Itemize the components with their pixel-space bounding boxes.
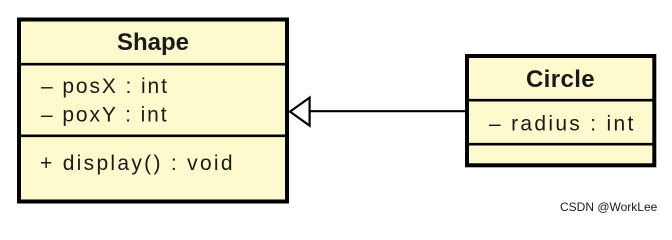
svg-text:Circle: Circle — [526, 66, 595, 93]
generalization line Circle to Shape — [309, 110, 465, 112]
svg-text:– radius : int: – radius : int — [489, 112, 636, 135]
generalization hollow triangle arrowhead — [290, 98, 310, 126]
Shape attribute/method divider — [17, 135, 289, 138]
Circle attribute/method divider — [465, 143, 656, 146]
svg-text:– poxY : int: – poxY : int — [41, 104, 168, 127]
Circle title/attribute divider — [465, 99, 656, 102]
class box Circle — [467, 56, 654, 165]
svg-text:Shape: Shape — [117, 29, 189, 56]
svg-text:CSDN @WorkLee: CSDN @WorkLee — [560, 200, 658, 214]
svg-text:– posX : int: – posX : int — [41, 75, 169, 98]
class box Shape — [19, 20, 287, 202]
svg-text:+ display() : void: + display() : void — [40, 152, 235, 175]
Shape title/attribute divider — [17, 63, 289, 66]
